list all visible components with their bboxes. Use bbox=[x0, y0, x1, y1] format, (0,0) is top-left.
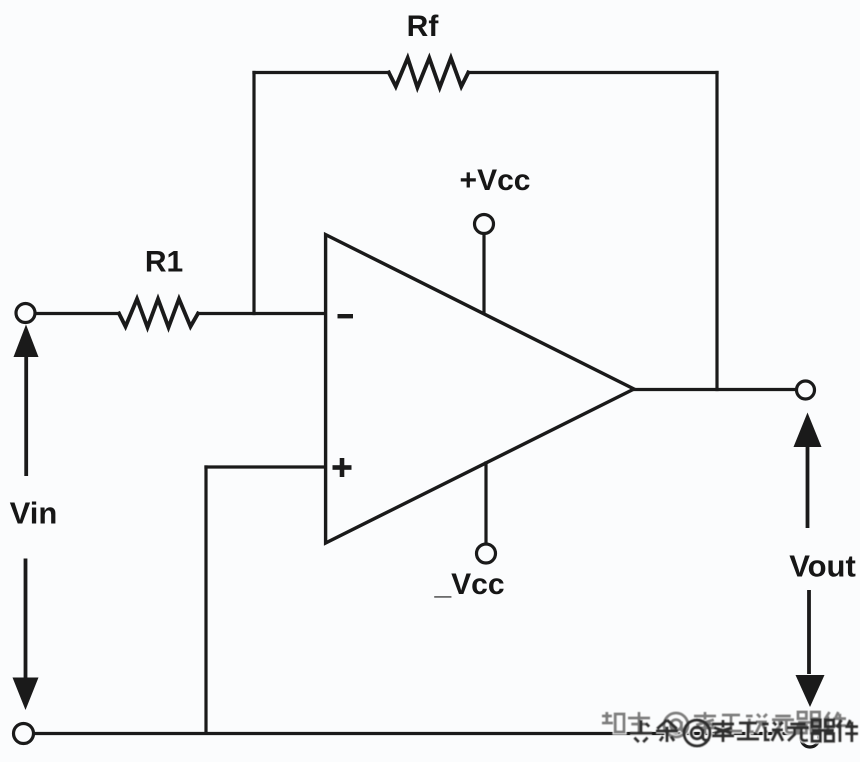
terminal +Vcc node bbox=[475, 215, 494, 234]
terminal output Vout node bbox=[797, 381, 815, 399]
arrow Vout down bbox=[796, 590, 825, 707]
resistor R1 bbox=[119, 299, 198, 327]
svg-text:+Vcc: +Vcc bbox=[460, 164, 531, 197]
op-amp non-inverting input plus symbol bbox=[333, 458, 352, 477]
wire R1 to inverting input bbox=[198, 312, 324, 315]
wire feedback right vertical bbox=[715, 73, 718, 390]
terminal ground left node bbox=[14, 724, 34, 744]
wire non-inverting input horizontal bbox=[206, 465, 324, 468]
terminal ground right node bbox=[801, 729, 819, 747]
wire ground rail bottom bbox=[34, 732, 802, 735]
wire output bbox=[634, 388, 797, 391]
wire -Vcc pin bbox=[484, 463, 487, 544]
wire input from Vin terminal to R1 bbox=[36, 312, 120, 315]
terminal input Vin node bbox=[16, 304, 35, 323]
watermark zhihu @ligong bbox=[0, 0, 1, 1]
op-amp inverting input minus symbol bbox=[338, 314, 354, 318]
arrow Vin up bbox=[14, 325, 39, 477]
svg-text:Vout: Vout bbox=[789, 549, 856, 584]
svg-text:Vin: Vin bbox=[10, 496, 58, 531]
wire feedback top right segment bbox=[468, 71, 717, 74]
wire +Vcc pin bbox=[482, 234, 485, 313]
arrow Vout up bbox=[794, 413, 822, 529]
svg-text:Rf: Rf bbox=[407, 10, 440, 43]
op-amp U1 bbox=[326, 235, 634, 543]
resistor Rf bbox=[389, 58, 469, 88]
terminal -Vcc node bbox=[477, 544, 496, 563]
svg-text:_Vcc: _Vcc bbox=[433, 568, 504, 601]
arrow Vin down bbox=[13, 559, 39, 711]
svg-text:R1: R1 bbox=[145, 246, 183, 279]
wire feedback top left segment bbox=[254, 71, 389, 74]
wire feedback left vertical bbox=[252, 73, 255, 314]
wire non-inverting input vertical down to ground rail bbox=[204, 467, 207, 732]
